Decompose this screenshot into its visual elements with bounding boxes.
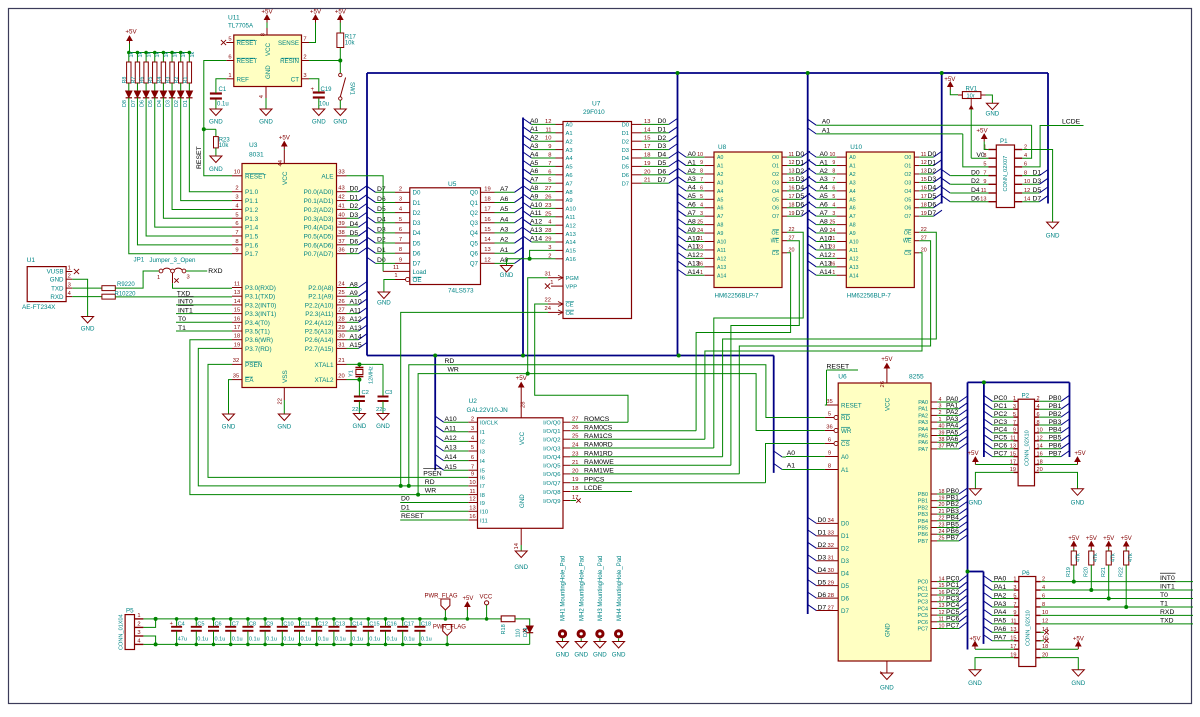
svg-text:Q1: Q1 xyxy=(470,200,479,207)
svg-text:0.1u: 0.1u xyxy=(232,636,243,642)
pin 26 P2.2(A10) (U3) xyxy=(337,304,347,306)
bus entry net D1 to U6 xyxy=(808,530,817,536)
svg-text:Q2: Q2 xyxy=(470,210,479,217)
wire/bus entry net D1 at U10 xyxy=(919,165,933,167)
svg-text:C5: C5 xyxy=(197,621,204,627)
wire PPICS to U6 CS xyxy=(766,444,825,483)
svg-text:I1: I1 xyxy=(480,430,485,436)
bus entry net A9 to U8 xyxy=(678,227,687,233)
svg-text:O5: O5 xyxy=(772,197,779,203)
pin 19 I/O/Q7 (U2) xyxy=(563,482,570,484)
wire/bus entry net A13 at U3 xyxy=(347,330,359,332)
svg-text:CE: CE xyxy=(566,303,574,309)
pin 14 (P2) net PB6 xyxy=(1035,448,1040,450)
svg-text:PC4: PC4 xyxy=(994,427,1007,434)
pin 13 PC4 (U6) xyxy=(931,607,937,609)
switch SW1 xyxy=(339,61,341,74)
svg-text:P3.5(T1): P3.5(T1) xyxy=(245,329,270,336)
wire/bus entry net PB6 at U6 xyxy=(937,533,959,535)
pin 6 RESET (U11) xyxy=(226,60,234,62)
svg-text:D3: D3 xyxy=(841,558,849,565)
svg-text:+5V: +5V xyxy=(335,9,347,16)
wire LED D2 to U3 P1.1 xyxy=(181,98,232,201)
pin 6 (P6) net T0 xyxy=(1036,598,1041,600)
power flag PWR_FLAG on +5V xyxy=(444,617,448,621)
pin 21 PB3 (U6) xyxy=(931,513,937,515)
wire V0 net RV1 wiper to P1 pin3 xyxy=(970,106,972,159)
svg-text:CT: CT xyxy=(291,76,299,83)
wire P1 pin6 to LCDE net xyxy=(1022,126,1083,167)
pin 2 PA2 (U6) xyxy=(931,414,937,416)
svg-text:+: + xyxy=(311,87,315,93)
bus entry net A2 to U10 xyxy=(808,168,817,174)
svg-text:D7: D7 xyxy=(622,181,629,187)
pin 7 A3 (U8) xyxy=(704,181,714,183)
svg-text:D1: D1 xyxy=(183,100,189,107)
pin 38 P0.5(AD5) (U3) xyxy=(337,235,347,237)
wire/bus entry net D0 at U10 xyxy=(919,156,933,158)
wire/bus entry net PC3 at U6 xyxy=(937,601,959,603)
svg-text:7: 7 xyxy=(471,464,474,470)
wire/bus entry net D6 at U7 xyxy=(642,174,657,176)
pin 35 EA (U3) xyxy=(232,379,242,381)
svg-text:1k: 1k xyxy=(190,52,196,58)
svg-text:A4: A4 xyxy=(717,189,723,195)
pin 1 (P5) xyxy=(135,618,144,620)
svg-text:A4: A4 xyxy=(500,216,509,223)
svg-text:A7: A7 xyxy=(500,186,509,193)
pin 1 VUSB (U1) xyxy=(66,271,72,273)
wire/bus entry net D6 at U10 xyxy=(919,207,933,209)
svg-text:PC1: PC1 xyxy=(918,586,929,592)
wire TXD net R10 to U3 xyxy=(115,296,232,298)
pin 27 WE (U10) xyxy=(914,240,919,242)
pin 19 (P2) GND xyxy=(1013,471,1018,473)
bus entry net A14 to U7 xyxy=(523,236,532,242)
svg-text:HM62256BLP-7: HM62256BLP-7 xyxy=(715,293,760,300)
pin 21 A10 (U10) xyxy=(837,241,847,243)
svg-text:D2: D2 xyxy=(377,237,386,244)
svg-text:R7: R7 xyxy=(131,77,137,84)
wire/bus entry net D3 at U8 xyxy=(787,181,802,183)
svg-text:PB7: PB7 xyxy=(946,535,959,542)
svg-text:D6: D6 xyxy=(658,168,667,175)
wire net RAM1WE from U2 xyxy=(570,473,739,475)
wire/bus entry net PB4 at U6 xyxy=(937,520,959,522)
svg-text:0.1u: 0.1u xyxy=(266,636,277,642)
svg-text:CONN_02X07: CONN_02X07 xyxy=(1003,156,1009,192)
wire/bus entry net D2 at U7 xyxy=(642,140,657,142)
pin 1 A14 (U8) xyxy=(704,274,714,276)
svg-text:28: 28 xyxy=(338,316,344,322)
connector P6 CONN_02X10 xyxy=(1019,577,1036,667)
pin 20 PB2 (U6) xyxy=(931,506,937,508)
svg-text:D2: D2 xyxy=(174,100,180,107)
wire/bus entry net A11 to U2 xyxy=(435,426,444,432)
svg-text:C10: C10 xyxy=(283,621,293,627)
svg-text:22: 22 xyxy=(545,298,551,304)
svg-text:RD: RD xyxy=(445,358,455,365)
wire LED D3 to U3 P1.2 xyxy=(172,98,232,210)
svg-text:A3: A3 xyxy=(849,180,855,186)
wire RESET to U6 xyxy=(827,369,859,371)
svg-text:Load: Load xyxy=(413,269,427,276)
svg-text:10k: 10k xyxy=(345,41,356,47)
pin 2 D0 (U5) xyxy=(395,191,410,193)
wire/bus entry net PA0 at U6 xyxy=(937,401,959,403)
svg-text:D1: D1 xyxy=(796,159,805,166)
svg-text:GND: GND xyxy=(333,119,347,126)
svg-text:11: 11 xyxy=(469,489,475,495)
wire RESET net from U11 to U3 xyxy=(204,61,232,176)
pin 1 VPP (U7) xyxy=(551,285,563,287)
wire/bus entry net D4 at U3 xyxy=(347,226,359,228)
wire/bus entry net PC7 at U6 xyxy=(937,628,959,630)
resistor R7 1k xyxy=(136,51,140,55)
wire net INT0 to U3 xyxy=(176,304,232,306)
power +5V SENSE xyxy=(315,15,317,23)
svg-text:INT0: INT0 xyxy=(1160,575,1175,582)
svg-text:A6: A6 xyxy=(688,202,697,209)
svg-text:47k: 47k xyxy=(1076,553,1082,562)
svg-text:1k: 1k xyxy=(181,52,187,58)
pin 32 PSEN (U3) xyxy=(232,363,242,365)
svg-text:A1: A1 xyxy=(530,126,539,133)
pin 3 A7 (U10) xyxy=(837,215,847,217)
svg-text:A0: A0 xyxy=(787,450,796,457)
svg-text:D6: D6 xyxy=(350,239,359,246)
svg-text:A13: A13 xyxy=(688,261,700,268)
svg-text:0.1u: 0.1u xyxy=(249,636,260,642)
no-connect VUSB xyxy=(74,269,79,274)
svg-text:GND: GND xyxy=(986,111,1000,118)
pin 12 O1 (U8) xyxy=(782,165,787,167)
svg-text:21: 21 xyxy=(338,358,344,364)
pin 6 A4 (U10) xyxy=(837,190,847,192)
bus entry net D0 to U6 xyxy=(808,517,817,523)
wire LED D8 to U3 P1.7 xyxy=(129,98,232,254)
pin 15 PC1 (U6) xyxy=(931,587,937,589)
wire RD net U3 to U2 xyxy=(198,348,468,486)
pin 26 I/O/Q1 (U2) xyxy=(563,430,570,432)
pin 15 (P2) net PC7 xyxy=(1013,456,1018,458)
svg-text:I3: I3 xyxy=(480,449,486,455)
svg-text:6: 6 xyxy=(471,455,474,461)
svg-text:D3: D3 xyxy=(658,143,667,150)
pin 9 A1 (U10) xyxy=(837,165,847,167)
svg-text:D6: D6 xyxy=(818,592,827,599)
pin 3 PA1 (U6) xyxy=(931,408,937,410)
wire/bus entry net D5 at U7 xyxy=(642,165,657,167)
pin 8 A1 (U6) xyxy=(825,469,838,471)
pin 8 (P2) net PB3 xyxy=(1035,424,1040,426)
bus entry net A3 to U10 xyxy=(808,176,817,182)
capacitor C16 0.1u xyxy=(384,617,388,621)
svg-text:D1: D1 xyxy=(1033,169,1042,176)
pin 16 (P2) net PB7 xyxy=(1035,456,1040,458)
wire/bus entry net D7 at U8 xyxy=(787,215,802,217)
ground under C2 xyxy=(353,414,365,421)
pin 23 A11 (U8) xyxy=(704,249,714,251)
pin 20 CS (U8) xyxy=(782,252,787,254)
svg-text:O2: O2 xyxy=(904,172,911,178)
svg-text:I/O/Q9: I/O/Q9 xyxy=(543,499,560,505)
svg-text:2: 2 xyxy=(1037,396,1040,402)
svg-text:RAM1RD: RAM1RD xyxy=(584,450,613,457)
wire/bus entry net D1 at U7 xyxy=(642,132,657,134)
svg-text:16: 16 xyxy=(484,217,490,223)
pin 43 P0.0(AD0) (U3) xyxy=(337,191,347,193)
svg-text:PC2: PC2 xyxy=(918,593,929,599)
resistor R8 1k xyxy=(127,51,131,55)
bus entry net A11 to U8 xyxy=(678,244,687,250)
svg-text:47u: 47u xyxy=(178,636,187,642)
svg-text:I4: I4 xyxy=(480,459,486,465)
svg-text:A3: A3 xyxy=(688,176,697,183)
svg-text:U3: U3 xyxy=(249,142,258,149)
svg-text:C9: C9 xyxy=(266,621,273,627)
svg-text:PC7: PC7 xyxy=(918,627,929,633)
pin 10 A0 (U10) xyxy=(837,156,847,158)
svg-text:A8: A8 xyxy=(530,185,539,192)
svg-text:CS: CS xyxy=(841,441,850,448)
bus entry net A1 to U8 xyxy=(678,160,687,166)
svg-text:CONN_02X10: CONN_02X10 xyxy=(1026,610,1032,646)
wire ALE to U5 Load xyxy=(347,176,384,272)
svg-text:D4: D4 xyxy=(622,156,630,162)
svg-text:D2: D2 xyxy=(928,168,937,175)
svg-text:PA7: PA7 xyxy=(946,443,959,450)
pin 14 (P1) xyxy=(1015,201,1023,203)
svg-text:PA1: PA1 xyxy=(994,584,1007,591)
svg-text:P3.2(INT0): P3.2(INT0) xyxy=(245,302,276,309)
svg-text:R20: R20 xyxy=(1084,567,1090,577)
resistor R5 1k xyxy=(153,51,157,55)
svg-text:D3: D3 xyxy=(350,212,359,219)
svg-text:OE: OE xyxy=(413,277,422,284)
svg-text:A10: A10 xyxy=(350,299,362,306)
svg-text:7: 7 xyxy=(399,237,402,243)
pin 2 (P2) net PB0 xyxy=(1035,400,1040,402)
pin 18 (P2) +5V xyxy=(1035,464,1040,466)
svg-text:+5V: +5V xyxy=(1121,535,1133,542)
wire/bus entry net D7 at P1 xyxy=(1022,201,1039,203)
svg-text:RAM0RD: RAM0RD xyxy=(584,442,613,449)
pin 24 OE (U7) xyxy=(548,311,563,313)
bus entry net A4 to U7 xyxy=(523,152,532,158)
ground under C3 xyxy=(377,414,389,421)
svg-text:D7: D7 xyxy=(1033,196,1042,203)
svg-text:RAM0WE: RAM0WE xyxy=(584,459,614,466)
svg-text:PB0: PB0 xyxy=(918,492,928,498)
bus entry net A5 to U8 xyxy=(678,193,687,199)
svg-text:P0.4(AD4): P0.4(AD4) xyxy=(304,225,334,232)
svg-text:16: 16 xyxy=(234,316,240,322)
svg-text:RXD: RXD xyxy=(1160,609,1174,616)
pin 16 (P6) no-connect xyxy=(1036,640,1041,642)
bus: P2 left vertical (x=983.9) xyxy=(983,382,985,457)
pin 26 A13 (U10) xyxy=(837,266,847,268)
svg-text:PSEN: PSEN xyxy=(245,362,263,369)
resistor R21 47k pull-up xyxy=(1108,542,1110,550)
svg-text:D3: D3 xyxy=(377,227,386,234)
bus: vertical bus left of U5 (U3 D/A entries) xyxy=(366,73,368,356)
pin 18 Q1 (U5) xyxy=(481,201,495,203)
svg-text:R1: R1 xyxy=(183,77,189,84)
svg-text:Q3: Q3 xyxy=(470,220,479,227)
ground at U7 A16 xyxy=(501,266,513,273)
svg-text:A2: A2 xyxy=(566,139,573,145)
svg-text:INT1: INT1 xyxy=(1160,584,1175,591)
svg-text:PWR_FLAG: PWR_FLAG xyxy=(425,594,458,600)
svg-text:0.1u: 0.1u xyxy=(301,636,312,642)
wire net ROMCS from U2 xyxy=(570,421,628,423)
svg-text:PC7: PC7 xyxy=(994,450,1007,457)
svg-text:2: 2 xyxy=(235,186,238,192)
svg-text:38: 38 xyxy=(338,230,344,236)
pin 4 (P5) xyxy=(135,643,144,645)
svg-text:PC0: PC0 xyxy=(994,395,1007,402)
svg-text:32: 32 xyxy=(828,543,834,549)
pin 15 (P6) net PA7 xyxy=(1014,640,1019,642)
svg-text:3: 3 xyxy=(471,426,474,432)
svg-text:A6: A6 xyxy=(849,206,855,212)
svg-text:24: 24 xyxy=(545,306,552,312)
svg-text:A0: A0 xyxy=(849,155,855,161)
svg-text:PC6: PC6 xyxy=(918,620,929,626)
svg-text:A5: A5 xyxy=(566,165,573,171)
svg-text:PA0: PA0 xyxy=(994,575,1007,582)
svg-text:P1: P1 xyxy=(1000,138,1008,145)
wire U1 GND xyxy=(72,279,87,316)
svg-text:A13: A13 xyxy=(820,261,832,268)
svg-text:I11: I11 xyxy=(480,518,488,524)
wire/bus entry net D1 at P1 xyxy=(1022,175,1039,177)
svg-text:+5V: +5V xyxy=(944,76,956,83)
pin 10 PC7 (U6) xyxy=(931,628,937,630)
pin 36 P0.7(AD7) (U3) xyxy=(337,253,347,255)
svg-text:1k: 1k xyxy=(172,52,178,58)
resistor R19 47k pull-up xyxy=(1073,542,1075,550)
svg-text:29: 29 xyxy=(338,325,344,331)
bus entry net D3 to U6 xyxy=(808,555,817,561)
svg-text:PC7: PC7 xyxy=(946,622,959,629)
svg-text:P0.7(AD7): P0.7(AD7) xyxy=(304,251,334,258)
pin 7 A5 (U7) xyxy=(556,165,564,167)
pin 19 P3.7(RD) (U3) xyxy=(232,347,242,349)
pin 18 O6 (U8) xyxy=(782,207,787,209)
svg-text:O7: O7 xyxy=(904,214,911,220)
svg-text:C7: C7 xyxy=(232,621,239,627)
pin 1 A14 (U10) xyxy=(837,274,847,276)
wire GND rail (caps) xyxy=(156,643,530,645)
pin 3 (P5) xyxy=(135,635,144,637)
svg-text:A0: A0 xyxy=(717,155,723,161)
svg-text:27: 27 xyxy=(338,308,344,314)
wire/bus entry net D6 at P1 xyxy=(942,196,951,202)
bus entry net A0 to U10 xyxy=(808,151,817,157)
wire/bus entry net A11 at U3 xyxy=(347,313,359,315)
pin 11 O0 (U10) xyxy=(914,156,919,158)
svg-text:A11: A11 xyxy=(717,248,726,254)
pin 4 P1.2 (U3) xyxy=(232,208,242,210)
svg-text:19: 19 xyxy=(484,186,490,192)
svg-text:JP1: JP1 xyxy=(134,257,145,264)
svg-text:PA7: PA7 xyxy=(994,635,1007,642)
ground under U2 xyxy=(520,545,522,551)
svg-text:PA0: PA0 xyxy=(918,400,928,406)
bus entry net A8 to U10 xyxy=(808,219,817,225)
pin 16 P3.4(T0) (U3) xyxy=(232,321,242,323)
no-connect I/O/Q9 (U2) xyxy=(570,500,576,502)
wire/bus entry net A8 at U3 xyxy=(347,287,359,289)
pin 2 GND (U1) xyxy=(66,278,72,280)
svg-text:D7: D7 xyxy=(658,177,667,184)
svg-text:RESET: RESET xyxy=(827,364,850,371)
wire/bus entry net A12 at U3 xyxy=(347,321,359,323)
svg-text:0.1u: 0.1u xyxy=(335,636,346,642)
svg-text:D4: D4 xyxy=(350,221,359,228)
svg-text:0.1u: 0.1u xyxy=(421,636,432,642)
svg-text:A14: A14 xyxy=(350,334,362,341)
IC U11 TL7705A supervisor xyxy=(234,35,302,87)
pin 9 P1.7 (U3) xyxy=(232,253,242,255)
wire/bus entry net PB0 at U6 xyxy=(937,493,959,495)
resistor R22 47k pull-up xyxy=(1125,542,1127,550)
svg-text:T1: T1 xyxy=(178,325,186,332)
resistor R10 220 xyxy=(102,294,115,299)
bus: vertical bus to U2 address inputs (x=435.2) xyxy=(434,356,436,471)
svg-text:25: 25 xyxy=(338,290,344,296)
svg-text:GND: GND xyxy=(880,685,894,692)
IC U6 8255 PPI xyxy=(838,383,931,661)
pin 13 (P2) net PC6 xyxy=(1013,448,1018,450)
svg-text:D6: D6 xyxy=(413,251,421,258)
bus entry net A13 to U10 xyxy=(808,261,817,267)
bus entry net A2 to U7 xyxy=(523,135,532,141)
pin 26 A13 (U8) xyxy=(704,266,714,268)
pin 4 RXD (U1) xyxy=(66,296,72,298)
svg-text:A11: A11 xyxy=(849,248,858,254)
svg-text:I/O/Q4: I/O/Q4 xyxy=(543,455,561,461)
svg-text:P0.1(AD1): P0.1(AD1) xyxy=(304,198,334,205)
capacitor C8 0.1u xyxy=(246,617,250,621)
pin 5 (P1) xyxy=(988,166,996,168)
resistor R2 1k xyxy=(179,51,183,55)
svg-text:PC3: PC3 xyxy=(918,600,929,606)
svg-text:7: 7 xyxy=(303,37,306,43)
svg-text:D5: D5 xyxy=(377,206,386,213)
svg-text:+5V: +5V xyxy=(463,596,474,602)
pin 14 D1 (U7) xyxy=(632,132,642,134)
svg-text:GND: GND xyxy=(1071,680,1085,687)
svg-text:3: 3 xyxy=(68,282,71,288)
svg-text:R6: R6 xyxy=(140,77,146,84)
wire/bus entry net D6 at U8 xyxy=(787,207,802,209)
capacitor C3 22p xyxy=(382,364,384,395)
wire/bus entry net D4 at U7 xyxy=(642,157,657,159)
pin 1 (P6) net PA0 xyxy=(1014,581,1019,583)
svg-text:+5V: +5V xyxy=(881,356,893,363)
svg-text:C19: C19 xyxy=(321,87,333,93)
svg-text:D1: D1 xyxy=(401,504,410,511)
svg-text:22p: 22p xyxy=(376,407,386,413)
wire/bus entry net D6 at U3 xyxy=(347,244,359,246)
svg-text:CONN_02X10: CONN_02X10 xyxy=(1025,430,1031,466)
wire net A0 from bus to P1 xyxy=(808,119,817,125)
svg-text:A12: A12 xyxy=(530,219,542,226)
svg-text:A7: A7 xyxy=(820,210,829,217)
